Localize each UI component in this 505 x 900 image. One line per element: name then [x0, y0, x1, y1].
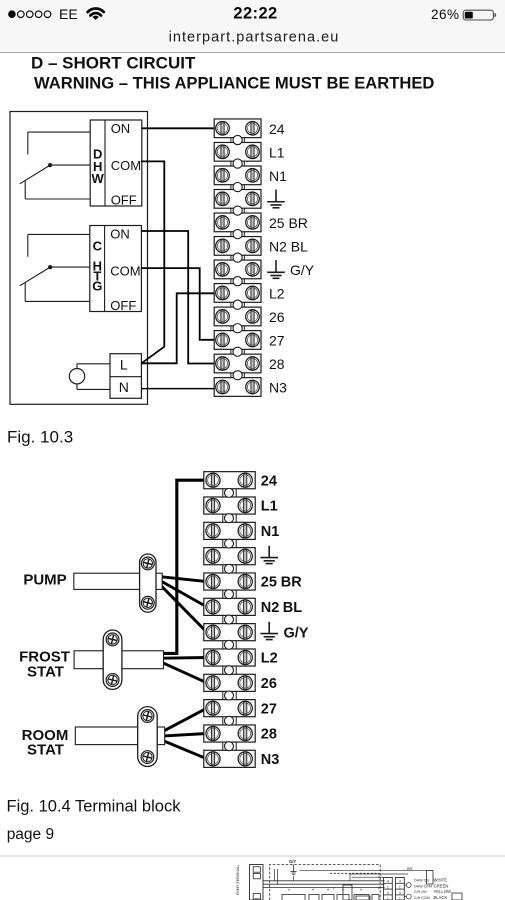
- svg-text:27: 27: [261, 701, 277, 717]
- svg-text:L2: L2: [269, 285, 285, 301]
- svg-text:26: 26: [261, 676, 277, 692]
- svg-text:STAT: STAT: [27, 664, 64, 681]
- svg-text:4: 4: [387, 880, 389, 884]
- svg-text:4: 4: [387, 891, 389, 895]
- svg-text:N3: N3: [269, 380, 287, 396]
- svg-text:28: 28: [269, 356, 285, 372]
- svg-text:C/H ON: C/H ON: [414, 890, 427, 894]
- svg-text:BR: BR: [407, 867, 413, 871]
- svg-text:COM: COM: [110, 264, 140, 279]
- svg-text:N: N: [119, 379, 129, 395]
- svg-text:L1: L1: [261, 499, 278, 515]
- svg-text:27: 27: [269, 332, 285, 348]
- svg-text:*: *: [288, 889, 290, 895]
- svg-text:W: W: [92, 171, 105, 186]
- svg-text:*: *: [360, 889, 362, 895]
- svg-text:BL: BL: [283, 600, 302, 616]
- svg-text:24: 24: [269, 121, 285, 137]
- svg-text:GREEN: GREEN: [434, 883, 449, 888]
- svg-text:DHW ON: DHW ON: [414, 879, 429, 883]
- svg-text:G/Y: G/Y: [289, 859, 296, 864]
- svg-text:N2 BL: N2 BL: [269, 238, 308, 254]
- svg-text:1: 1: [399, 885, 401, 889]
- svg-text:COM: COM: [111, 158, 141, 173]
- svg-text:PUMP (TERMINAL): PUMP (TERMINAL): [236, 865, 240, 895]
- svg-text:page 9: page 9: [7, 826, 54, 843]
- svg-text:Fig. 10.4 Terminal block: Fig. 10.4 Terminal block: [7, 797, 182, 815]
- svg-text:D – SHORT CIRCUIT: D – SHORT CIRCUIT: [31, 53, 196, 72]
- svg-text:L1: L1: [269, 144, 285, 160]
- svg-text:*: *: [327, 889, 329, 895]
- svg-text:N2: N2: [261, 600, 280, 616]
- svg-text:G/Y: G/Y: [284, 625, 309, 641]
- svg-text:Y: Y: [332, 886, 335, 891]
- svg-text:OFF: OFF: [111, 193, 137, 208]
- svg-text:WARNING – THIS APPLIANCE MUST: WARNING – THIS APPLIANCE MUST BE EARTHED: [34, 73, 434, 92]
- svg-text:25 BR: 25 BR: [269, 215, 308, 231]
- svg-text:Fig. 10.3: Fig. 10.3: [7, 427, 73, 446]
- svg-text:L2: L2: [261, 651, 278, 667]
- svg-text:OFF: OFF: [110, 298, 136, 313]
- svg-text:N1: N1: [261, 524, 280, 540]
- svg-text:4: 4: [399, 891, 401, 895]
- svg-text:PUMP: PUMP: [23, 571, 66, 588]
- svg-text:4: 4: [399, 880, 401, 884]
- svg-text:N3: N3: [261, 752, 280, 768]
- svg-text:G: G: [92, 279, 102, 294]
- svg-text:ON: ON: [110, 227, 130, 242]
- svg-text:DHW COM: DHW COM: [414, 884, 432, 888]
- svg-text:24: 24: [261, 473, 277, 489]
- svg-text:BLACK: BLACK: [434, 895, 448, 900]
- svg-text:BR: BR: [281, 575, 302, 591]
- svg-text:26: 26: [269, 309, 285, 325]
- svg-text:25: 25: [261, 575, 277, 591]
- svg-text:28: 28: [261, 727, 277, 743]
- svg-text:1: 1: [387, 885, 389, 889]
- svg-text:C: C: [93, 239, 103, 254]
- svg-text:C/H COM: C/H COM: [414, 896, 430, 900]
- svg-text:P: P: [378, 886, 381, 891]
- svg-text:STAT: STAT: [27, 741, 64, 758]
- svg-text:L: L: [120, 356, 128, 372]
- svg-text:WHITE: WHITE: [434, 878, 448, 883]
- svg-text:N1: N1: [269, 168, 287, 184]
- svg-text:ON: ON: [111, 121, 131, 136]
- svg-text:*: *: [312, 889, 314, 895]
- svg-text:YELLOW: YELLOW: [434, 889, 452, 894]
- svg-text:G/Y: G/Y: [290, 262, 315, 278]
